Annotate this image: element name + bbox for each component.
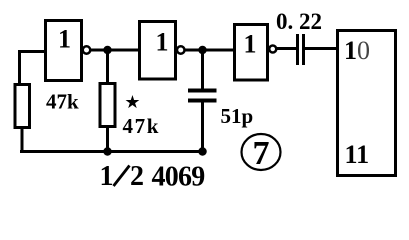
inverter gate U1A box [46,21,82,81]
inverter U1B output bubble [177,46,185,54]
wire: U1A output to U1B input [90,49,139,52]
inverter U1A output bubble [83,46,91,54]
svg-text:10: 10 [344,36,370,65]
svg-text:7: 7 [253,135,270,172]
svg-text:★: ★ [124,92,140,112]
slash of 1/2 [114,166,130,187]
capacitor 0.22 right plate [302,34,305,65]
junction: node between U1B and U1C [198,46,207,55]
inverter U1C output bubble [269,46,276,53]
wire: input of gate 1 to resistor R1 top [20,52,46,87]
svg-text:11: 11 [345,140,370,169]
junction: capacitor on bottom rail [198,147,207,156]
wire: capacitor 51p bottom to rail [201,103,204,152]
inverter gate U1C box [235,25,268,81]
wire: capacitor 0.22 to IC box pin 10 [305,47,337,50]
svg-text:4069: 4069 [152,162,205,193]
junction: R2 on bottom rail [103,147,112,156]
figure number circle 7 [242,134,281,170]
svg-text:1: 1 [58,25,71,54]
capacitor 51p top plate [188,89,217,93]
resistor 47k (left) body [15,85,30,128]
capacitor 0.22 left plate [296,34,299,65]
wire: resistor R1 bottom to ground rail [21,128,24,152]
wire: junction down to capacitor 51p [201,51,204,90]
wire: bottom rail [20,150,204,153]
junction: node between U1A and U1B [103,46,112,55]
svg-text:1: 1 [244,30,257,59]
wire: resistor R2 bottom to rail [106,127,109,152]
svg-text:2: 2 [130,161,144,192]
wire: U1B output to U1C input [185,49,235,52]
wire: U1C output to capacitor 0.22 [276,47,297,50]
capacitor 51p bottom plate [188,99,217,103]
svg-text:1: 1 [156,28,169,57]
inverter gate U1B box [140,22,176,80]
svg-text:51p: 51p [221,104,254,128]
IC box (right block) [338,31,396,176]
svg-text:0. 22: 0. 22 [276,9,322,34]
svg-text:47k: 47k [123,114,160,138]
svg-text:47k: 47k [46,90,79,114]
wire: junction down to resistor R2 top [106,51,109,84]
svg-text:1: 1 [100,161,114,192]
resistor 47k (starred) body [100,84,115,127]
